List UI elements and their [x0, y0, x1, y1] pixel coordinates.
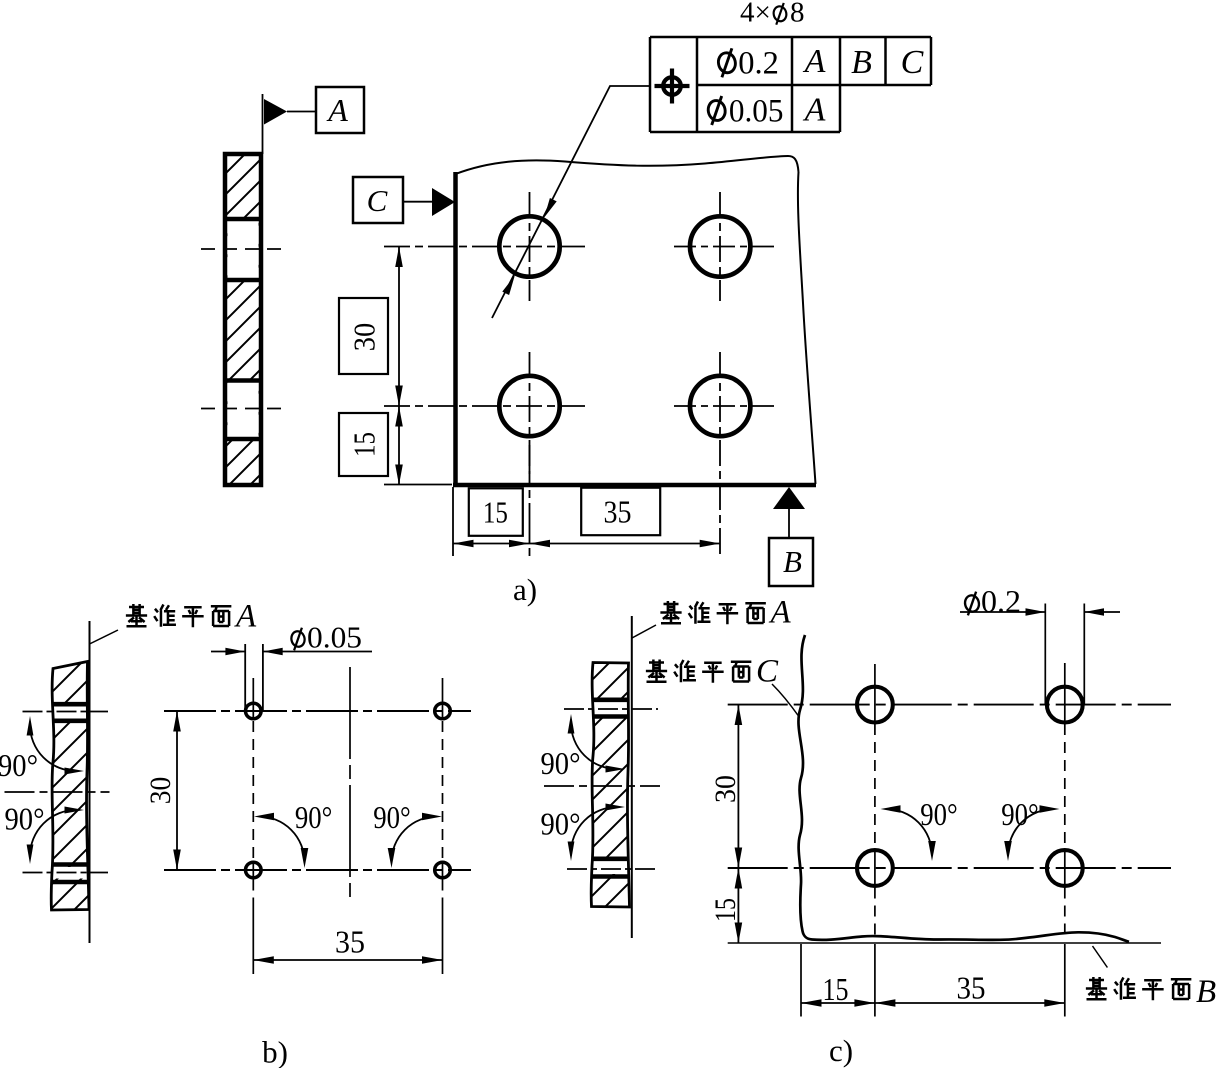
svg-text:90°: 90° [920, 796, 958, 832]
main plate outline: bottom edge [453, 483, 816, 488]
side view (c): wavy outline with hatching [588, 663, 632, 908]
dimension 15 vertical (c) [709, 868, 742, 943]
svg-text:A: A [769, 595, 792, 631]
dimension φ0.2 (c) [960, 583, 1120, 619]
svg-text:15: 15 [483, 494, 508, 529]
datum B symbol: triangle, leader, frame [769, 487, 813, 586]
mid centerline (b side view) [5, 791, 110, 793]
bottom dimensions 15 and 35 (a) [453, 445, 720, 556]
bottom dimension 15 (c) [801, 971, 875, 1007]
svg-text:A: A [326, 92, 348, 128]
tolerance zone circle bottom-left (b) [246, 862, 262, 878]
datum A symbol: extension line, triangle, leader, frame [263, 87, 365, 154]
svg-text:90°: 90° [0, 747, 38, 783]
hole bottom-left (a) [384, 352, 585, 474]
angle 90 right (c grid) with arc [1001, 796, 1059, 861]
vertical dashed axis right column (b) [442, 678, 444, 974]
vertical dashed axis left column (c) [874, 664, 876, 1017]
svg-text:B: B [851, 44, 872, 81]
main plate outline: left edge [453, 172, 458, 486]
dimension 35 (b) [253, 924, 442, 964]
svg-text:0.05: 0.05 [729, 93, 784, 129]
svg-text:90°: 90° [541, 745, 581, 781]
svg-text:35: 35 [957, 970, 986, 1006]
svg-text:0.2: 0.2 [738, 46, 779, 82]
tolerance zone circle bottom-left (c) [857, 850, 893, 886]
datum plane B line (c) [728, 942, 1161, 944]
svg-text:4×: 4× [740, 0, 771, 29]
mid centerline (c side view) [544, 785, 660, 787]
FCF row1 tolerance value φ0.2 [717, 46, 779, 82]
angle 90 upper (c side) with arc arrow [541, 714, 626, 781]
central axis line (b) [349, 667, 351, 897]
tolerance zone circle bottom-right (c) [1047, 850, 1083, 886]
dimension 15 vertical (a): line, arrows, boxed text [339, 406, 452, 485]
svg-text:B: B [1196, 974, 1216, 1010]
svg-text:A: A [234, 599, 257, 635]
bottom extension line left (c) [800, 944, 802, 1017]
svg-text:C: C [367, 183, 388, 218]
svg-text:15: 15 [347, 432, 382, 457]
dimension 30 (a): line, arrows, boxed text [339, 247, 403, 407]
main plate outline: right wavy break edge [798, 172, 816, 484]
svg-text:30: 30 [347, 323, 382, 352]
hole centerline lower (c side view) [567, 868, 658, 870]
angle 90 lower (b side) with arc arrow [5, 801, 85, 865]
leader line from FCF to hole [492, 86, 650, 318]
hole centerline upper (b side view) [23, 711, 109, 713]
hole top-right (a) [674, 192, 776, 301]
svg-text:8: 8 [790, 0, 805, 29]
angle 90 right (b grid) with arc [373, 799, 442, 868]
tolerance zone circle top-right (c) [1047, 687, 1083, 723]
svg-text:15: 15 [709, 898, 742, 922]
angle 90 lower (c side) with arc arrow [541, 804, 626, 862]
label 4xφ8 [740, 0, 805, 29]
leader arrowhead lower [502, 276, 515, 296]
label 基准平面A (b) with leader [90, 599, 258, 645]
svg-text:15: 15 [823, 971, 849, 1007]
side view plate (section) figure a [225, 154, 261, 485]
svg-text:35: 35 [335, 924, 365, 960]
hole bottom-right (a) [674, 352, 776, 555]
svg-text:A: A [803, 43, 826, 80]
svg-text:35: 35 [604, 494, 632, 529]
svg-text:0.2: 0.2 [981, 583, 1021, 619]
datum C symbol: frame, leader, triangle [353, 177, 455, 223]
svg-text:0.05: 0.05 [307, 620, 362, 655]
position symbol [655, 69, 690, 104]
dimension 30 (b) [144, 711, 181, 870]
tolerance zone circle top-left (c) [857, 687, 893, 723]
tolerance zone boundary lines (c) [1044, 604, 1046, 705]
svg-text:90°: 90° [295, 799, 333, 835]
side view (b): wavy outline with hatching [48, 662, 90, 911]
wavy real surface C (c) [798, 635, 1129, 942]
vertical dashed axis left column (b) [252, 678, 254, 974]
svg-text:30: 30 [144, 777, 177, 805]
hole centerline lower (side view a) [201, 408, 288, 410]
FCF row2 tolerance value φ0.05 [706, 93, 783, 129]
axis row line bottom (b) [164, 869, 471, 871]
svg-text:A: A [803, 92, 826, 129]
tolerance zone circle top-left (b) [246, 703, 262, 719]
bottom dimension 35 (c) [875, 970, 1065, 1007]
svg-text:b): b) [262, 1035, 288, 1068]
hole centerline upper (side view a) [201, 248, 288, 250]
label 基准平面C (c) with leader [646, 654, 799, 717]
datum plane A line (c) [631, 616, 633, 938]
angle 90 upper (b side) with arc arrow [0, 716, 84, 783]
hole centerline upper (c side view) [564, 708, 658, 710]
label 基准平面B (c) with leader [1086, 946, 1216, 1010]
axis row line bottom (c) [728, 867, 1171, 869]
hole top-left (a) [384, 192, 585, 301]
angle 90 left (b grid) with arc [254, 799, 332, 868]
label 基准平面A (c) with leader [632, 595, 792, 639]
svg-text:30: 30 [709, 775, 742, 803]
feature control frame (composite position tolerance) [650, 37, 931, 132]
angle 90 left (c grid) with arc [881, 796, 958, 861]
hole centerline lower (b side view) [23, 872, 109, 874]
svg-text:90°: 90° [5, 801, 45, 837]
datum plane A line (b) [89, 621, 91, 943]
vertical dashed axis right column (c) [1064, 663, 1066, 1017]
svg-text:C: C [756, 654, 779, 690]
dimension φ0.05 (b) [211, 620, 372, 656]
svg-text:c): c) [829, 1033, 853, 1068]
leader arrowhead upper [544, 198, 557, 218]
svg-text:B: B [783, 544, 802, 579]
svg-text:a): a) [513, 572, 537, 607]
dimension 30 (c) [709, 705, 742, 868]
tolerance zone circle top-right (b) [435, 703, 451, 719]
main plate outline: top wavy break edge [456, 156, 799, 174]
axis row line top (b) [164, 710, 471, 712]
svg-text:C: C [901, 44, 924, 81]
tolerance zone boundary lines (b) [244, 644, 246, 711]
axis row line top (c) [728, 704, 1171, 706]
tolerance zone circle bottom-right (b) [435, 862, 451, 878]
